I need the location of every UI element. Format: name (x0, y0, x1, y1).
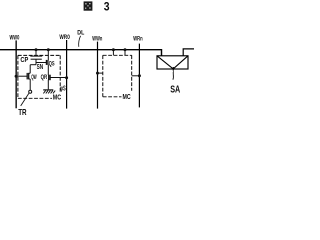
transistor QR gate lead to WR0 (50, 77, 67, 79)
transistor QW drain wire up to SN (29, 65, 31, 74)
capacitor CP (30, 56, 42, 59)
wire: data line DL horizontal (0, 50, 162, 56)
junction node on DL at middle cell stub 1 (112, 48, 115, 51)
capacitor CP wire from DL (35, 50, 37, 56)
transistor QS source wire down to QR (47, 65, 49, 75)
junction node on WR0 at QR gate (65, 76, 68, 79)
memory cell dashed box MC (left) (18, 55, 60, 98)
svg-text:MC: MC (123, 94, 131, 101)
svg-text:TR: TR (18, 107, 26, 117)
storage node SN wires (30, 59, 46, 65)
memory cell dashed box MC (middle) (103, 55, 132, 97)
terminal circle TR below QW (29, 90, 32, 93)
junction node on WWn (96, 72, 99, 75)
stub from WWn into middle cell (98, 72, 103, 74)
transistor QS (46, 60, 48, 65)
wire: word line WWn vertical (97, 42, 99, 109)
stub from DL into middle cell 1 (112, 50, 114, 56)
junction node on WW0 at QW gate (15, 75, 18, 78)
svg-text:CP: CP (20, 57, 28, 64)
stub from DL into middle cell 2 (124, 50, 126, 56)
wire: word line WW0 vertical (15, 40, 17, 108)
leader from TR label to terminal (21, 93, 29, 106)
transistor QR source wire down to ground (47, 80, 49, 90)
svg-text:3: 3 (104, 0, 110, 14)
transistor QR (49, 75, 50, 81)
svg-text:QR: QR (41, 74, 48, 81)
svg-text:WW0: WW0 (10, 35, 20, 42)
svg-text:DL: DL (77, 30, 84, 37)
figure title glyph 図 (84, 1, 93, 10)
junction node on WRn (138, 74, 141, 77)
svg-text:QW: QW (31, 74, 37, 81)
ground symbol below QR (43, 90, 55, 94)
junction node on DL at capacitor branch (35, 48, 38, 51)
junction node on DL at middle cell stub 2 (124, 48, 127, 51)
svg-text:WRn: WRn (133, 36, 142, 43)
svg-text:QS: QS (49, 61, 55, 68)
transistor QW (27, 73, 29, 80)
svg-text:SN: SN (37, 64, 44, 71)
transistor QW source wire down to terminal (29, 79, 31, 90)
wire: word line WRn vertical (138, 44, 140, 108)
svg-text:MC: MC (53, 95, 61, 102)
svg-text:WR0: WR0 (59, 34, 70, 41)
svg-text:SA: SA (170, 85, 180, 96)
svg-text:φS: φS (60, 85, 66, 92)
leader from DL label to data line (79, 36, 81, 47)
svg-text:WWn: WWn (92, 35, 102, 42)
leader from SA box to SA label (172, 71, 175, 80)
sense amplifier SA box (157, 56, 188, 71)
stub from WRn into middle cell (132, 75, 140, 77)
transistor QW gate lead from WW0 (16, 75, 27, 77)
junction node on DL at read branch (47, 48, 50, 51)
wire: word line WR0 vertical (66, 40, 68, 109)
wire: data line DL right of sense amp (183, 49, 194, 56)
transistor QS drain wire from DL (47, 50, 49, 61)
